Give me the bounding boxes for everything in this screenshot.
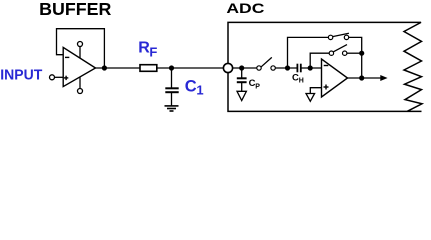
svg-text:H: H bbox=[299, 78, 304, 85]
input terminal circle bbox=[50, 75, 55, 80]
junction dot CP tap bbox=[239, 65, 244, 70]
wire RF to node bbox=[157, 67, 228, 69]
wire CH to comparator minus bbox=[301, 67, 322, 69]
op-amp U1 bottom power pin bbox=[79, 77, 81, 88]
wire down to CP bbox=[241, 68, 243, 78]
switch S1 (sampling) bbox=[257, 66, 261, 70]
op-amp U1 plus marker bbox=[64, 77, 68, 79]
ground (earth) below C1 bbox=[165, 105, 179, 107]
wire S2 to feedback vertical bbox=[349, 37, 362, 53]
wire S1 to node A bbox=[275, 67, 297, 69]
wire input to op-amp + bbox=[55, 76, 64, 78]
switch S2 (auto-zero top) bbox=[328, 35, 332, 39]
switch S3 (auto-zero inner) bbox=[329, 51, 333, 55]
junction dot feedback bbox=[359, 51, 364, 56]
wire comparator output bbox=[348, 77, 382, 79]
ADC box with zigzag right edge bbox=[228, 22, 422, 111]
ground triangle at comparator plus bbox=[306, 94, 315, 102]
junction dot C1 tap bbox=[169, 65, 174, 70]
feedback vertical to output bbox=[361, 53, 363, 78]
wire node to switch S1 bbox=[233, 67, 257, 69]
wire CP to ground bbox=[241, 82, 243, 91]
capacitor CH (series) bbox=[296, 64, 298, 73]
svg-text:F: F bbox=[149, 45, 157, 60]
svg-text:R: R bbox=[138, 39, 150, 56]
svg-text:INPUT: INPUT bbox=[0, 67, 42, 84]
ground triangle below CP bbox=[237, 91, 246, 100]
wire C1 to ground bbox=[171, 92, 173, 106]
svg-text:C: C bbox=[185, 77, 197, 95]
svg-text:BUFFER: BUFFER bbox=[39, 0, 111, 19]
node circle ADC input pin bbox=[223, 63, 232, 72]
svg-text:P: P bbox=[255, 84, 260, 91]
wire U1 output bbox=[96, 67, 141, 69]
wire S3 to feedback vertical bbox=[347, 52, 362, 54]
riser node A bbox=[288, 37, 329, 68]
comparator minus marker bbox=[324, 65, 329, 67]
op-amp U1 (buffer) bbox=[63, 47, 95, 86]
junction dot node B bbox=[308, 65, 313, 70]
op-amp U1 top power pin bbox=[79, 47, 81, 59]
output arrowhead bbox=[380, 75, 387, 81]
comparator U2 bbox=[322, 59, 348, 97]
capacitor CP bbox=[237, 77, 247, 79]
resistor RF bbox=[140, 65, 157, 72]
junction dot output bbox=[359, 75, 364, 80]
wire comparator plus to ground bbox=[310, 88, 321, 94]
capacitor C1 bbox=[165, 87, 178, 89]
svg-text:1: 1 bbox=[196, 82, 203, 97]
riser node B bbox=[310, 53, 329, 68]
op-amp U1 minus marker bbox=[65, 56, 69, 58]
comparator plus marker bbox=[324, 86, 329, 88]
wire down to C1 bbox=[171, 68, 173, 88]
junction dot node A bbox=[285, 65, 290, 70]
svg-text:ADC: ADC bbox=[226, 0, 264, 16]
junction dot at U1 output bbox=[102, 65, 107, 70]
feedback wire loop of U1 bbox=[57, 29, 105, 68]
